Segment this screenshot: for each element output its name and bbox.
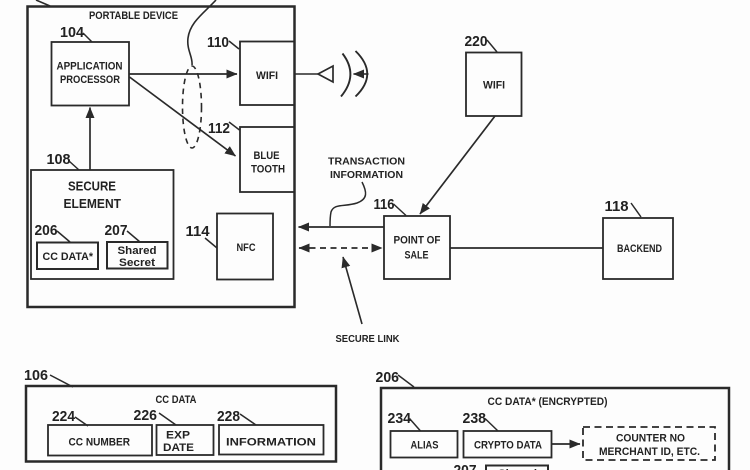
svg-text:104: 104 — [60, 24, 85, 41]
antenna arc 2 — [356, 51, 368, 97]
svg-text:206: 206 — [35, 222, 58, 239]
wire dashed secure link double arrow — [299, 247, 382, 249]
svg-text:CC NUMBER: CC NUMBER — [69, 437, 131, 449]
wire arrow application processor to wifi — [129, 73, 237, 75]
wire point of sale to backend — [450, 247, 603, 249]
svg-text:BACKEND: BACKEND — [617, 243, 662, 255]
svg-text:114: 114 — [186, 223, 211, 240]
box secure element 108 — [31, 170, 174, 279]
leader 116 — [394, 204, 407, 216]
leader 234 — [410, 419, 421, 432]
box information 228 — [219, 425, 324, 455]
antenna triangle — [318, 66, 333, 82]
leader 206 — [57, 231, 70, 242]
svg-text:206: 206 — [376, 369, 400, 386]
svg-text:207: 207 — [454, 462, 477, 470]
curve leader from top — [188, 0, 216, 65]
svg-text:CC DATA* (ENCRYPTED): CC DATA* (ENCRYPTED) — [488, 396, 608, 408]
svg-text:CC DATA: CC DATA — [156, 394, 197, 406]
box shared secret encrypted (cut off) — [486, 466, 548, 470]
box cc data* encrypted 206 — [381, 388, 729, 470]
svg-text:APPLICATION: APPLICATION — [57, 61, 123, 73]
box cc data* 206 — [37, 243, 98, 270]
leader 112 — [229, 122, 240, 130]
svg-text:POINT OF: POINT OF — [394, 235, 441, 247]
box wifi 220 — [466, 53, 522, 117]
leader 110 — [229, 41, 239, 49]
svg-text:INFORMATION: INFORMATION — [226, 437, 316, 449]
svg-text:DATE: DATE — [163, 442, 194, 454]
svg-text:207: 207 — [105, 222, 128, 239]
leader 114 — [205, 238, 217, 248]
svg-text:BLUE: BLUE — [254, 150, 280, 162]
leader 118 — [631, 203, 641, 217]
box portable device 102 — [28, 7, 295, 308]
box cc number 224 — [48, 425, 152, 456]
svg-text:ALIAS: ALIAS — [411, 440, 439, 452]
leader 228 — [240, 414, 256, 425]
box backend 118 — [603, 218, 673, 279]
svg-text:CRYPTO DATA: CRYPTO DATA — [474, 440, 542, 452]
antenna arrow — [354, 73, 369, 75]
leader 104 — [83, 33, 92, 42]
leader 220 — [487, 40, 497, 52]
svg-text:SECURE: SECURE — [68, 179, 116, 194]
svg-text:WIFI: WIFI — [483, 80, 505, 92]
leader 226 — [159, 413, 176, 425]
svg-text:MERCHANT ID, ETC.: MERCHANT ID, ETC. — [599, 446, 700, 458]
svg-text:220: 220 — [465, 33, 488, 50]
svg-text:Shared: Shared — [118, 245, 157, 257]
svg-text:ELEMENT: ELEMENT — [64, 196, 122, 211]
svg-text:118: 118 — [605, 198, 629, 215]
svg-text:NFC: NFC — [237, 242, 256, 254]
box crypto data 238 — [464, 431, 552, 458]
antenna arc 1 — [341, 54, 350, 97]
svg-text:108: 108 — [47, 151, 71, 168]
box application processor 104 — [52, 42, 130, 106]
svg-text:TOOTH: TOOTH — [251, 164, 285, 176]
wire arrow application processor to bluetooth — [130, 77, 236, 156]
svg-text:228: 228 — [217, 408, 240, 425]
box point of sale 116 — [384, 216, 450, 279]
box exp date 226 — [157, 425, 214, 455]
leader 207 — [127, 231, 140, 242]
svg-text:226: 226 — [134, 407, 158, 424]
svg-text:116: 116 — [374, 196, 395, 213]
svg-text:112: 112 — [208, 120, 230, 137]
box bluetooth 112 — [240, 127, 295, 192]
squiggle leader transaction information — [330, 182, 366, 226]
wire arrow secure link label to dashed link — [343, 257, 362, 324]
dashed box counter no merchant id — [583, 427, 715, 460]
svg-text:TRANSACTION: TRANSACTION — [328, 156, 405, 168]
svg-text:SECURE LINK: SECURE LINK — [336, 333, 400, 345]
box nfc 114 — [217, 214, 273, 280]
antenna line — [295, 73, 319, 75]
box cc data 106 — [26, 386, 336, 462]
leader 108 — [69, 161, 79, 170]
svg-text:INFORMATION: INFORMATION — [330, 169, 403, 181]
svg-text:CC DATA*: CC DATA* — [43, 251, 94, 263]
leader 224 — [75, 417, 88, 426]
svg-text:238: 238 — [463, 410, 487, 427]
svg-text:PROCESSOR: PROCESSOR — [60, 74, 120, 86]
box wifi 110 — [240, 42, 295, 106]
leader 106 — [50, 375, 73, 387]
dashed ellipse interface — [183, 66, 202, 148]
svg-text:COUNTER NO: COUNTER NO — [616, 433, 685, 445]
svg-text:SALE: SALE — [405, 250, 429, 262]
svg-text:PORTABLE DEVICE: PORTABLE DEVICE — [89, 10, 178, 22]
svg-text:234: 234 — [388, 410, 412, 427]
svg-text:WIFI: WIFI — [256, 70, 278, 82]
leader 238 — [485, 419, 498, 432]
svg-text:106: 106 — [24, 367, 48, 384]
svg-text:224: 224 — [52, 408, 76, 425]
leader 206 encrypted — [398, 375, 414, 387]
wire arrow crypto data to counter — [552, 443, 581, 445]
svg-text:110: 110 — [207, 34, 229, 51]
wire arrow transaction information into portable device — [299, 226, 385, 228]
svg-text:EXP: EXP — [166, 430, 190, 442]
box shared secret 207 — [107, 242, 168, 269]
wire arrow secure element to application processor — [89, 108, 91, 171]
box alias 234 — [391, 431, 458, 458]
leader 102 (cut off at top) — [36, 0, 50, 6]
wire arrow wifi 220 to point of sale — [420, 116, 495, 214]
svg-text:Secret: Secret — [119, 257, 155, 269]
